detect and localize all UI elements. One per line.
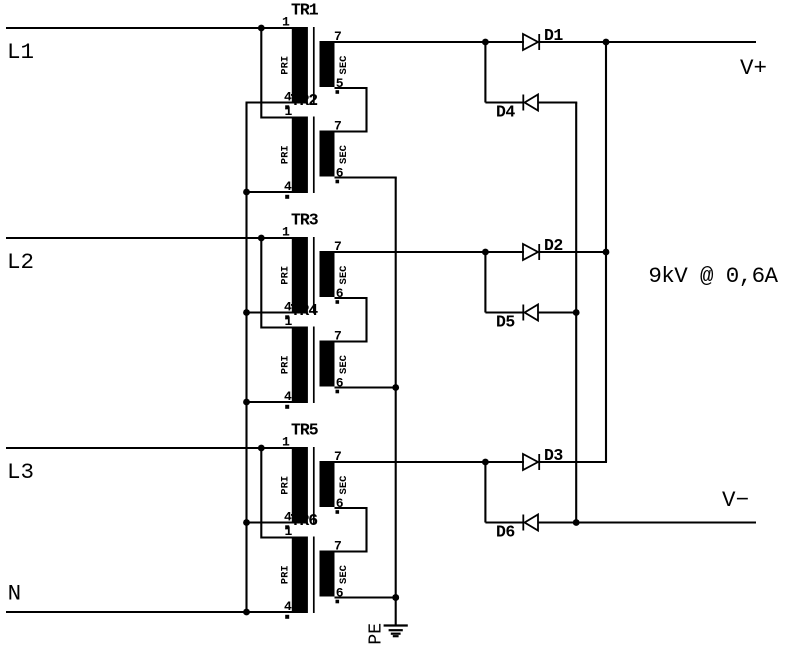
wire TR2 pin 6 to return bus [335, 178, 396, 179]
svg-text:L3: L3 [7, 459, 34, 485]
transformer TR2 core [313, 117, 315, 194]
transformer TR3 core [313, 237, 315, 314]
node TR4 pin 6 on return bus [392, 384, 399, 391]
wire D3 cathode to V+ bus [539, 461, 607, 463]
transformer TR3 primary [292, 237, 308, 314]
polarity dot TR4 primary [285, 405, 289, 409]
polarity dot TR4 secondary [336, 390, 340, 394]
svg-text:SEC: SEC [338, 564, 350, 584]
wire TR2 pin 4 to N bus [246, 191, 293, 193]
transformer TR5 core [313, 447, 315, 524]
node PE junction [392, 594, 399, 601]
transformer TR3 secondary [320, 251, 335, 297]
svg-text:TR3: TR3 [291, 210, 319, 229]
wire TR3 pin 4 to N bus [246, 311, 293, 313]
svg-text:TR4: TR4 [291, 301, 319, 320]
svg-text:9kV @ 0,6A: 9kV @ 0,6A [648, 263, 778, 289]
polarity dot TR3 secondary [336, 300, 340, 304]
svg-text:SEC: SEC [338, 144, 350, 164]
wire D4 anode to V- bus [539, 103, 577, 104]
wire L3 phase [6, 447, 293, 449]
transformer TR2 primary [292, 117, 308, 194]
svg-text:SEC: SEC [338, 475, 350, 495]
diode D4 [523, 95, 538, 111]
polarity dot TR1 secondary [336, 90, 340, 94]
wire phase column to D5 [484, 252, 486, 313]
svg-text:L1: L1 [7, 39, 34, 65]
svg-text:SEC: SEC [338, 354, 350, 374]
diode D5 [523, 305, 538, 321]
wire TR3 pin 7 to phase node [335, 251, 486, 253]
svg-text:PRI: PRI [279, 56, 291, 75]
wire V+ bus vertical [605, 42, 607, 462]
transformer TR4 core [313, 327, 315, 404]
svg-text:1: 1 [285, 314, 293, 329]
transformer TR6 secondary [320, 551, 335, 597]
wire TR4 pin 4 to N bus [246, 401, 293, 403]
wire D2 cathode to V+ bus [539, 251, 607, 253]
wire D5 anode to V- bus [539, 311, 578, 313]
node D2 on V+ bus [603, 249, 610, 256]
node D1 on V+ bus [603, 39, 610, 46]
svg-text:1: 1 [285, 524, 293, 539]
wire anode D1 [485, 41, 524, 43]
svg-text:1: 1 [282, 15, 290, 30]
node TR3 pin 4 on N bus [243, 309, 250, 316]
transformer TR5 primary [292, 447, 308, 524]
svg-text:4: 4 [284, 179, 292, 194]
svg-text:V+: V+ [740, 55, 767, 81]
diode D1 [523, 34, 539, 50]
svg-text:TR1: TR1 [291, 0, 319, 19]
polarity dot TR3 primary [285, 315, 289, 319]
wire TR1 pin 4 to N bus [246, 101, 293, 103]
polarity dot TR2 primary [285, 195, 289, 199]
node phase column at D2 [482, 249, 489, 256]
wire TR5 pin 6 to TR6 pin 7 [335, 508, 367, 552]
node L2 junction [258, 235, 265, 242]
wire TR5 pin 4 to N bus [246, 521, 293, 523]
polarity dot TR5 secondary [336, 510, 340, 514]
svg-text:TR5: TR5 [291, 420, 319, 439]
node L1 junction [258, 25, 265, 32]
svg-text:SEC: SEC [338, 265, 350, 285]
wire cathode D4 [485, 101, 524, 103]
svg-text:PE: PE [367, 623, 387, 645]
svg-text:SEC: SEC [338, 55, 350, 75]
ground PE symbol [384, 626, 408, 637]
diode D6 [523, 515, 538, 531]
wire TR4 pin 6 to return bus [335, 386, 397, 388]
node D5 on V- bus [573, 309, 580, 316]
transformer TR6 primary [292, 537, 308, 614]
node D6 on V- bus [573, 519, 580, 526]
svg-text:D4: D4 [496, 103, 515, 122]
wire N bus vertical [245, 103, 247, 613]
node phase column at D3 [482, 459, 489, 466]
svg-text:PRI: PRI [279, 266, 291, 285]
polarity dot TR2 secondary [336, 180, 340, 184]
node TR5 pin 4 on N bus [243, 519, 250, 526]
transformer TR6 core [313, 537, 315, 614]
polarity dot TR6 primary [285, 615, 289, 619]
svg-text:1: 1 [282, 435, 290, 450]
svg-text:PRI: PRI [279, 355, 291, 374]
svg-text:V−: V− [722, 487, 749, 513]
wire TR1 pin 7 to phase node [335, 41, 486, 43]
wire phase column to D6 [484, 462, 486, 523]
wire L1 stub to TR2 pin 1 [261, 27, 293, 118]
svg-text:D6: D6 [496, 523, 515, 542]
wire L2 stub to TR4 pin 1 [261, 237, 293, 328]
wire D1 cathode to V+ bus [539, 41, 607, 43]
svg-text:PRI: PRI [279, 476, 291, 495]
wire D6 anode to V- bus [539, 521, 578, 523]
svg-text:1: 1 [282, 225, 290, 240]
transformer TR5 secondary [320, 461, 335, 507]
wire cathode D5 [485, 311, 524, 313]
wire TR6 pin 6 to return bus [335, 596, 397, 598]
wire TR3 pin 6 to TR4 pin 7 [335, 298, 367, 342]
transformer TR4 secondary [320, 341, 335, 387]
diode D2 [523, 244, 539, 260]
node TR6 pin 4 on N bus [243, 609, 250, 616]
wire TR5 pin 7 to phase node [335, 461, 486, 463]
polarity dot TR5 primary [285, 525, 289, 529]
wire L1 phase [6, 27, 293, 29]
svg-text:L2: L2 [7, 249, 34, 275]
svg-text:4: 4 [284, 599, 292, 614]
wire V- output [576, 521, 756, 523]
wire L3 stub to TR6 pin 1 [261, 447, 293, 538]
node TR6 pin 6 on return bus [392, 594, 399, 601]
transformer TR2 secondary [320, 131, 335, 177]
polarity dot TR6 secondary [336, 600, 340, 604]
wire anode D2 [485, 251, 524, 253]
wire V- bus vertical [575, 103, 577, 523]
transformer TR1 core [313, 27, 315, 104]
svg-text:D5: D5 [496, 313, 515, 332]
polarity dot TR1 primary [285, 105, 289, 109]
wire anode D3 [485, 461, 524, 463]
svg-text:PRI: PRI [279, 565, 291, 584]
node TR2 pin 4 on N bus [243, 189, 250, 196]
node L3 junction [258, 445, 265, 452]
wire phase column to D4 [484, 42, 486, 103]
svg-text:TR2: TR2 [291, 91, 318, 110]
node TR4 pin 4 on N bus [243, 399, 250, 406]
diode D3 [523, 454, 539, 470]
node phase column at D1 [482, 39, 489, 46]
wire TR1 pin 5 to TR2 pin 7 [335, 88, 367, 132]
wire L2 phase [6, 237, 293, 239]
svg-text:TR6: TR6 [291, 511, 318, 530]
wire cathode D6 [485, 521, 524, 523]
transformer TR1 secondary [320, 41, 335, 87]
transformer TR1 primary [292, 27, 308, 104]
svg-text:N: N [8, 581, 22, 607]
wire secondary return bus [395, 178, 397, 625]
svg-text:1: 1 [285, 104, 293, 119]
transformer TR4 primary [292, 327, 308, 404]
wire TR6 pin 4 to N bus [246, 611, 293, 613]
wire V+ output [606, 41, 756, 43]
svg-text:4: 4 [284, 389, 292, 404]
svg-text:PRI: PRI [279, 145, 291, 164]
wire N [6, 611, 248, 613]
